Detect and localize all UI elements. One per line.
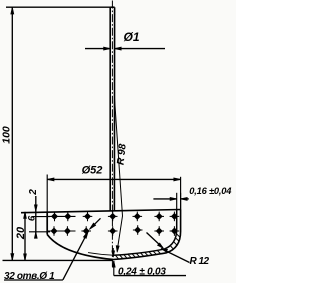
- R12 leader line: [162, 249, 190, 263]
- section hatch band: [116, 234, 181, 259]
- svg-text:Ø1: Ø1: [123, 30, 139, 44]
- wire top extension line from stem top to 100-dim: [6, 6, 110, 8]
- R98 arrow at inner bottom surface: [116, 246, 119, 253]
- label shelf 32 holes: [4, 279, 63, 281]
- wall thickness 0,16 right arrow line: [181, 198, 189, 200]
- dimension 6 arrow up: [34, 232, 37, 239]
- holes row 2 (diamonds with cross ticks): [51, 225, 180, 236]
- dimension 2 line with arrow down: [35, 196, 37, 236]
- stem right edge: [113, 7, 115, 211]
- bowl right inner wall and corner: [113, 210, 177, 256]
- svg-text:20: 20: [15, 226, 27, 240]
- svg-text:0,16 ±0,04: 0,16 ±0,04: [189, 186, 232, 196]
- svg-text:R 98: R 98: [116, 143, 129, 166]
- bowl left bottom curve: [47, 235, 113, 260]
- diameter 1 right arrow line: [115, 48, 165, 50]
- dimension 20 arrow down: [24, 254, 27, 261]
- svg-text:R 12: R 12: [190, 256, 210, 267]
- wall extension lines above rim: [176, 193, 178, 210]
- extension line hole row 2: [29, 231, 50, 233]
- dimension 20 line: [24, 212, 26, 261]
- rim top line of bowl: [21, 210, 181, 213]
- diameter 52 right arrow: [174, 178, 181, 181]
- diameter 1 left arrow line: [85, 48, 110, 50]
- dimension 100 arrow down: [11, 254, 14, 261]
- dimension 20 arrow up: [24, 212, 27, 219]
- dimension 100 line: [11, 7, 13, 260]
- dimension 100 arrow up: [11, 7, 14, 14]
- diameter 52 right extension line: [180, 177, 182, 210]
- svg-text:Ø52: Ø52: [82, 165, 103, 177]
- bottom extension line: [3, 259, 114, 261]
- diameter 52 dimension line: [47, 178, 180, 180]
- thickness 0,24 down arrow at centre: [112, 248, 114, 257]
- svg-text:0,24 ± 0,03: 0,24 ± 0,03: [118, 267, 166, 278]
- diagonal arrow right to inner arc: [147, 233, 163, 248]
- svg-text:6: 6: [27, 215, 38, 221]
- diagonal pitch arrow pointing at row2 hole from upper right: [91, 218, 101, 228]
- double arrow between holes row 2: [48, 230, 76, 232]
- leader line 32 holes: [63, 236, 86, 280]
- R98 radius line: [115, 98, 123, 246]
- extension line hole row 1: [32, 216, 50, 218]
- svg-text:100: 100: [1, 126, 13, 144]
- thickness 0,24 up arrow from label shelf: [113, 261, 115, 276]
- stem top cap: [110, 6, 114, 8]
- bowl left outer wall: [46, 212, 48, 234]
- diameter 52 left extension line: [46, 175, 48, 213]
- stem left edge: [109, 7, 111, 211]
- svg-text:2: 2: [28, 189, 39, 196]
- wall thickness 0,16 left arrow line: [153, 198, 176, 200]
- bowl right outer wall and R12 corner: [113, 210, 181, 260]
- double arrow between holes row 1: [48, 215, 76, 217]
- centerline axis (dash-dot): [111, 1, 113, 269]
- leader arrow 32 holes at row2 hole: [83, 231, 88, 238]
- svg-text:32 отв.Ø 1: 32 отв.Ø 1: [4, 271, 55, 282]
- diameter 52 left arrow: [47, 178, 54, 181]
- holes row 1 (diamonds with cross ticks): [51, 212, 179, 222]
- label shelf 0,24: [114, 275, 186, 277]
